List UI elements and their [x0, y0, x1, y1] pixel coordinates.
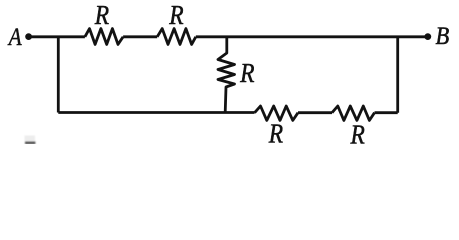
svg-text:R: R: [168, 1, 184, 31]
value label R of resistor R2: [168, 1, 184, 31]
wire: between R1 and R2: [123, 35, 157, 38]
svg-text:R: R: [350, 120, 366, 144]
svg-text:A: A: [7, 22, 22, 50]
wire: right vertical branch: [396, 37, 399, 113]
node A label: [7, 22, 22, 50]
node A terminal dot: [25, 33, 32, 40]
resistor R2 (top right): [157, 29, 196, 45]
svg-text:R: R: [268, 119, 284, 144]
svg-text:R: R: [239, 59, 255, 89]
wire: node A to resistor R1 (top rail left, junction at x=58): [30, 35, 85, 38]
value label R of resistor R3: [268, 119, 284, 149]
resistor R1 (top left): [85, 29, 123, 45]
value label R of resistor R4: [350, 120, 366, 150]
svg-text:B: B: [436, 23, 450, 50]
resistor R3 (bottom left): [255, 106, 298, 120]
resistor R5 (middle vertical): top lead, zigzag, bottom lead: [218, 37, 235, 113]
value label R of resistor R1: [94, 1, 110, 31]
wire: R2 to node B (top rail right, junctions at x=227 and x=397.7): [196, 35, 427, 38]
wire: between R3 and R4: [298, 111, 332, 114]
node B terminal dot: [424, 33, 431, 40]
wire: bottom rail left (left branch to resistor R3): [58, 111, 254, 114]
wire: bottom rail right to corner: [375, 111, 398, 114]
value label R of resistor R5 (middle): [239, 59, 255, 89]
svg-text:R: R: [94, 1, 110, 31]
node B label: [436, 23, 450, 50]
resistor R4 (bottom right): [332, 106, 375, 120]
wire: left vertical branch: [57, 37, 60, 113]
